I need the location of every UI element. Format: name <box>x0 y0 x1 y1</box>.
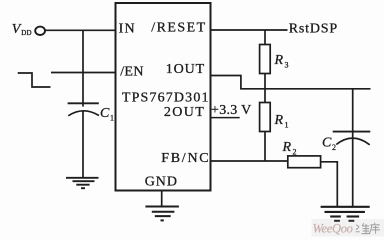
svg-text:DD: DD <box>21 29 32 37</box>
svg-text:2: 2 <box>293 148 297 157</box>
wire 1OUT net down to C2 <box>352 89 354 136</box>
svg-text:C: C <box>100 106 110 121</box>
svg-text:C: C <box>322 136 332 151</box>
capacitor C1 curved plate <box>68 111 99 116</box>
ground bottom right shared <box>321 207 370 217</box>
ground below GND pin <box>145 207 179 221</box>
wire VDD junction column down to C1 <box>82 30 84 106</box>
svg-text:/RESET: /RESET <box>151 20 206 35</box>
svg-text:R: R <box>274 53 284 68</box>
svg-text:GND: GND <box>145 175 178 190</box>
ground below C1 <box>66 178 99 188</box>
svg-text:1: 1 <box>285 121 289 130</box>
capacitor C2 curved plate <box>336 138 369 145</box>
resistor R3 <box>260 45 271 74</box>
svg-text:+3.3 V: +3.3 V <box>211 103 252 118</box>
wire FB/NC to R2 <box>211 160 288 162</box>
watermark box <box>312 219 384 237</box>
ground bottom right lowest bar segments <box>334 220 354 222</box>
svg-text:2OUT: 2OUT <box>164 105 205 120</box>
svg-text:RstDSP: RstDSP <box>289 21 338 36</box>
wire C2 to ground <box>352 136 354 206</box>
wire 2OUT +3.3V stub <box>211 117 240 119</box>
wire /RESET to RstDSP <box>211 29 288 31</box>
resistor R1 <box>260 103 271 132</box>
watermark hanzi 库 <box>369 223 380 234</box>
svg-text:TPS767D301: TPS767D301 <box>122 91 210 106</box>
wire R3 to R1 <box>264 74 266 103</box>
svg-text:R: R <box>274 113 284 128</box>
wire R2 to ground <box>321 162 338 206</box>
svg-text:2: 2 <box>332 143 336 152</box>
wire EN input <box>51 72 116 74</box>
capacitor C2 top plate <box>333 131 371 133</box>
svg-text:IN: IN <box>119 22 136 37</box>
svg-text:R: R <box>282 140 292 155</box>
svg-text:3: 3 <box>285 61 289 70</box>
svg-text:/EN: /EN <box>120 65 144 80</box>
wire 1OUT stepped to C2 branch <box>211 76 371 89</box>
resistor R2 <box>288 156 321 168</box>
wire VDD to IN <box>45 29 116 31</box>
svg-text:1: 1 <box>110 114 114 123</box>
svg-text:WeeQoo: WeeQoo <box>313 222 353 236</box>
waveform falling-edge symbol at /EN <box>18 73 51 87</box>
wire /RESET junction down to R3 <box>264 30 266 45</box>
svg-text:1OUT: 1OUT <box>166 62 205 77</box>
node VDD terminal <box>35 27 45 35</box>
svg-text:FB/NC: FB/NC <box>161 151 210 166</box>
wire GND pin to ground <box>161 191 163 207</box>
wire C1 to ground <box>82 111 84 177</box>
watermark hanzi 维 <box>356 223 371 233</box>
capacitor C1 top plate <box>68 102 99 104</box>
IC U1 voltage regulator TPS767D301 body <box>116 3 211 191</box>
wire R1 to FB node <box>264 132 266 162</box>
